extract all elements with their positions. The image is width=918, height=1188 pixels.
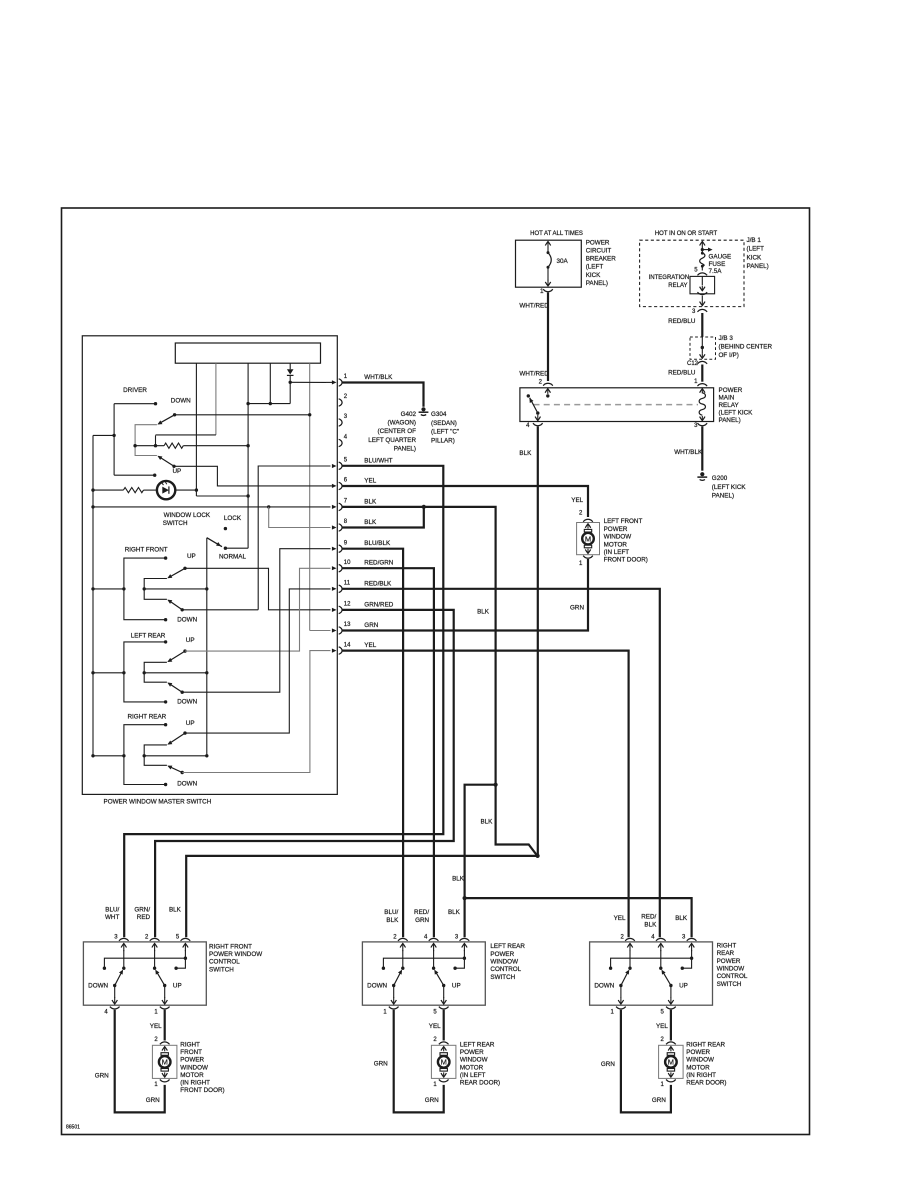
svg-text:POWER: POWER [180, 1057, 204, 1064]
feed wire [93, 588, 124, 590]
blade dot [183, 649, 186, 652]
wire BLK to right front switch [186, 856, 537, 937]
power circuit breaker box [516, 240, 582, 287]
svg-text:RIGHT FRONT: RIGHT FRONT [125, 547, 168, 554]
wire RED/BLU [701, 365, 703, 382]
connector pin 13 [339, 627, 342, 634]
svg-text:CONTROL: CONTROL [209, 959, 240, 966]
RIGHT REAR motor box [659, 1045, 684, 1078]
svg-text:DOWN: DOWN [594, 983, 614, 990]
fixed contact right [453, 967, 456, 970]
wire [660, 950, 662, 968]
svg-text:BLU/: BLU/ [384, 909, 398, 916]
wire driver contact riser [113, 404, 115, 476]
junction [546, 394, 549, 397]
circuit breaker 30A element [548, 253, 551, 268]
DOWN output to pin 5 riser [182, 609, 258, 611]
connector pin 5 [181, 938, 191, 940]
blade arrowhead [167, 741, 172, 745]
arrow up pin c [463, 943, 465, 951]
svg-text:SWITCH: SWITCH [163, 520, 188, 527]
connector pin 12 [339, 606, 342, 613]
svg-text:G402: G402 [401, 411, 417, 418]
svg-text:OF I/P): OF I/P) [719, 352, 739, 359]
svg-text:RIGHT: RIGHT [180, 1042, 200, 1049]
svg-text:POWER: POWER [490, 951, 514, 958]
wire [670, 986, 672, 999]
breaker contact top [547, 251, 550, 254]
connector [583, 556, 593, 558]
svg-text:INTEGRATION: INTEGRATION [649, 275, 690, 281]
junction on BLK bus [91, 505, 94, 508]
svg-text:(LEFT: (LEFT [747, 246, 765, 253]
connector relay pin 3 [697, 423, 707, 425]
svg-text:LOCK: LOCK [224, 515, 242, 522]
arrow pin 12 [332, 608, 337, 612]
svg-text:MOTOR: MOTOR [604, 541, 628, 548]
wire BLK branch to left rear / right rear [465, 785, 496, 938]
wire [620, 986, 622, 999]
svg-text:UP: UP [187, 553, 196, 560]
arrow down in integration relay [701, 286, 703, 291]
svg-text:REAR DOOR): REAR DOOR) [460, 1080, 500, 1087]
UP contact [164, 640, 167, 643]
svg-text:YEL: YEL [614, 915, 626, 922]
arrow down to J/B edge [701, 301, 703, 306]
svg-text:M: M [441, 1058, 447, 1067]
relay blade pivot [536, 411, 539, 414]
wire [196, 495, 248, 497]
breaker arrow up [547, 241, 549, 248]
UP blade [169, 651, 186, 661]
motor symbol M [667, 1053, 674, 1056]
diagram border frame [62, 208, 810, 1135]
svg-text:BLU/: BLU/ [105, 906, 119, 913]
connector pin 3 [460, 938, 470, 940]
DOWN blade [169, 766, 183, 772]
RIGHT power window control switch [590, 942, 713, 1005]
junction on common bus [205, 587, 208, 590]
svg-text:KICK: KICK [747, 254, 762, 261]
branch arrow right [702, 249, 708, 251]
svg-text:DOWN: DOWN [367, 983, 387, 990]
DOWN blade [169, 683, 183, 692]
blade dot [113, 984, 116, 987]
wire YEL to motor [670, 1010, 672, 1041]
wire [114, 474, 155, 476]
blade top dot [153, 967, 156, 970]
connector [666, 1080, 676, 1082]
fixed contact left [103, 967, 106, 970]
lock switch blade [207, 538, 222, 547]
arrow down [443, 997, 445, 1004]
svg-text:GRN: GRN [415, 917, 429, 924]
svg-text:WHT/RED: WHT/RED [519, 303, 549, 310]
integration relay box [690, 276, 715, 293]
arrow pin 5 [332, 464, 337, 468]
arrow down [114, 997, 116, 1004]
connector pin 8 [339, 524, 342, 531]
arrow down [443, 1072, 445, 1077]
svg-text:13: 13 [344, 622, 351, 628]
wire to riser [183, 445, 248, 447]
UP contact [164, 723, 167, 726]
UP output riser to pin 10 [185, 568, 331, 651]
svg-text:RELAY: RELAY [668, 283, 687, 289]
blade arrowhead [167, 766, 172, 770]
connector [439, 1080, 449, 1082]
UP blade [662, 971, 671, 986]
svg-text:DOWN: DOWN [177, 699, 197, 706]
normal contact [224, 547, 227, 550]
svg-text:WINDOW: WINDOW [717, 966, 745, 973]
UP blade [169, 568, 186, 577]
svg-text:(LEFT "C": (LEFT "C" [431, 429, 459, 436]
resistor LED [123, 488, 143, 493]
svg-text:NORMAL: NORMAL [219, 553, 246, 560]
svg-text:UP: UP [186, 637, 195, 644]
junction [143, 754, 146, 757]
svg-text:(LEFT KICK: (LEFT KICK [712, 484, 747, 491]
wire [184, 950, 186, 958]
svg-text:WHT: WHT [105, 914, 119, 921]
connector pin 1 [616, 1007, 626, 1009]
motor symbol M [440, 1053, 447, 1056]
wire YEL to motor [164, 1010, 166, 1041]
arrow down [587, 549, 589, 554]
wire to common bus [144, 755, 207, 757]
svg-text:BLK: BLK [675, 915, 688, 922]
svg-text:SWITCH: SWITCH [717, 981, 742, 988]
svg-text:PANEL): PANEL) [394, 445, 416, 452]
fixed contact left [382, 967, 385, 970]
svg-text:G200: G200 [712, 475, 728, 482]
svg-text:CONTROL: CONTROL [717, 973, 748, 980]
DOWN blade [115, 971, 123, 986]
UP blade [169, 733, 186, 744]
svg-text:RIGHT REAR: RIGHT REAR [128, 713, 167, 720]
UP blade [435, 971, 444, 986]
wire BLK from relay pin 4 [537, 426, 539, 856]
relay coil arrow down [701, 416, 703, 421]
BLK bus vertical [92, 435, 94, 755]
svg-text:POWER: POWER [604, 526, 628, 533]
connector relay pin 4 [533, 423, 543, 425]
blade top dot [659, 967, 662, 970]
arrow pin 1 [332, 380, 337, 384]
svg-text:UP: UP [173, 468, 182, 475]
blade arrowhead [157, 420, 162, 424]
wire BLK down to join relay BLK [496, 785, 538, 856]
wire pin1 WHT/BLK to ground [342, 383, 423, 407]
blade dot [392, 984, 395, 987]
connector [160, 1042, 170, 1044]
blade dot [183, 567, 186, 570]
blade arrowhead [434, 970, 438, 975]
wire BLK bus to pin 7 [93, 506, 331, 508]
svg-text:BLU/WHT: BLU/WHT [364, 457, 392, 464]
arrow down [670, 1072, 672, 1077]
svg-text:WINDOW LOCK: WINDOW LOCK [164, 512, 211, 519]
blade top dot [432, 967, 435, 970]
arrow up to HOT feed [701, 241, 703, 248]
blade arrowhead [662, 970, 666, 975]
svg-text:10: 10 [344, 560, 351, 566]
DOWN contact [164, 783, 167, 786]
svg-text:YEL: YEL [364, 478, 376, 485]
blade arrowhead [398, 970, 402, 975]
wire pin14 YEL to right rear switch [342, 651, 628, 938]
LEFT REAR contact riser [124, 642, 166, 702]
connector [583, 519, 593, 521]
svg-text:7.5A: 7.5A [709, 268, 723, 275]
lock contact [224, 527, 227, 530]
svg-text:BREAKER: BREAKER [586, 256, 617, 263]
feed wire [93, 755, 124, 757]
junction BLK [536, 854, 540, 858]
bracket [144, 662, 167, 682]
junction in J/B 3 [701, 346, 704, 349]
svg-text:PANEL): PANEL) [586, 280, 608, 287]
driver down contact [154, 402, 157, 405]
branch arrowhead [708, 248, 713, 252]
svg-text:YEL: YEL [571, 497, 583, 504]
arrow down [393, 997, 395, 1004]
DOWN blade [169, 600, 183, 610]
UP blade [156, 971, 165, 986]
connector pin 6 [339, 482, 342, 489]
wire pin9 BLU/BLK to left rear switch [342, 549, 403, 938]
wire pin11 RED/BLK to right rear switch [342, 589, 660, 937]
svg-text:GRN: GRN [374, 1060, 388, 1067]
connector [697, 273, 707, 275]
svg-text:DOWN: DOWN [88, 983, 108, 990]
svg-text:MOTOR: MOTOR [686, 1064, 710, 1071]
connector pin 4 [339, 439, 342, 446]
switch feed bar [104, 958, 185, 968]
junction on bracket [133, 444, 136, 447]
wire from rect riser [247, 363, 249, 548]
svg-text:UP: UP [173, 983, 182, 990]
arrow up pin b [433, 943, 435, 951]
connector pin 5 [339, 462, 342, 469]
wire from gray rect line [156, 434, 216, 436]
svg-text:G304: G304 [431, 411, 447, 418]
wire [547, 267, 549, 281]
wire [135, 445, 164, 447]
connector relay pin 2 [543, 383, 553, 385]
connector pin 2 [625, 938, 635, 940]
connector pin 3 [339, 419, 342, 426]
svg-text:(LEFT: (LEFT [586, 264, 604, 271]
diode [287, 369, 294, 374]
LED illumination lamp [157, 481, 175, 499]
svg-text:LEFT FRONT: LEFT FRONT [604, 518, 643, 525]
blade arrowhead [167, 658, 172, 662]
svg-text:M: M [585, 534, 591, 543]
UP output jog to pin 12 [185, 568, 331, 610]
junction on riser [195, 488, 198, 491]
arrow pin 13 [332, 628, 337, 632]
svg-text:RED/GRN: RED/GRN [364, 560, 393, 567]
arrow up [587, 524, 589, 529]
blade arrowhead [157, 456, 162, 460]
junction on BLK bus [91, 587, 94, 590]
wire GRN down-left [115, 1010, 165, 1113]
arrow up pin a [402, 943, 404, 951]
svg-text:GRN/RED: GRN/RED [364, 601, 393, 608]
ground G200 [700, 472, 704, 476]
DOWN contact [164, 700, 167, 703]
connector [160, 1080, 170, 1082]
gauge fuse 7.5A element [700, 253, 705, 266]
blade arrowhead [167, 574, 172, 578]
motor symbol M [161, 1053, 168, 1056]
DOWN output riser to pin 14 [182, 651, 330, 773]
svg-text:POWER: POWER [719, 387, 743, 394]
svg-text:GRN: GRN [364, 622, 378, 629]
svg-text:YEL: YEL [429, 1023, 441, 1030]
junction [701, 248, 704, 251]
wire pin8 BLK joining pin 7 [342, 507, 424, 528]
junction pin 8 wire [422, 505, 426, 509]
arrow pin 7 [332, 505, 337, 509]
junction on BLK bus [91, 488, 94, 491]
svg-text:LEFT REAR: LEFT REAR [131, 632, 166, 639]
svg-text:GRN/: GRN/ [134, 906, 150, 913]
svg-text:BLK: BLK [480, 819, 493, 826]
junction on BLK bus [91, 754, 94, 757]
svg-text:1: 1 [540, 288, 544, 295]
svg-text:POWER WINDOW: POWER WINDOW [209, 951, 262, 958]
arrow down [701, 354, 703, 359]
junction BLK to right rear [463, 896, 467, 900]
connector pin 4 [429, 938, 439, 940]
wire driver down blade to gray riser [175, 414, 310, 416]
blade dot [619, 984, 622, 987]
blade end dot [172, 465, 175, 468]
svg-text:RELAY: RELAY [719, 402, 740, 409]
fuse terminal [701, 252, 704, 255]
wire [326, 381, 332, 383]
wire [443, 986, 445, 999]
junction BLK split [494, 783, 498, 787]
junction pin 8 tap [267, 505, 270, 508]
wire below diode [289, 375, 291, 403]
svg-text:(CENTER OF: (CENTER OF [378, 428, 417, 435]
svg-text:FRONT DOOR): FRONT DOOR) [604, 557, 648, 564]
RIGHT FRONT contact riser [124, 558, 166, 620]
junction [143, 671, 146, 674]
arrow pin 10 [332, 566, 337, 570]
arrow down to pin 4 [537, 415, 539, 421]
blade dot [181, 771, 184, 774]
wire gray to pin 8 [269, 507, 331, 528]
svg-text:PILLAR): PILLAR) [431, 437, 455, 444]
wire WHT/BLK to ground [701, 426, 703, 470]
svg-text:BLK: BLK [386, 917, 399, 924]
connector pin 5 [666, 1007, 676, 1009]
svg-text:(BEHIND CENTER: (BEHIND CENTER [719, 343, 773, 350]
wire from rect [269, 363, 271, 403]
wire to BLK bus [93, 434, 114, 436]
svg-text:GRN: GRN [146, 1097, 160, 1104]
connector [439, 1042, 449, 1044]
connector pin 3 [119, 938, 129, 940]
wire [114, 403, 155, 405]
svg-text:RIGHT REAR: RIGHT REAR [686, 1042, 725, 1049]
wire [701, 266, 703, 270]
blade top dot [122, 967, 125, 970]
fixed contact right [681, 967, 684, 970]
wire [114, 986, 116, 999]
J/B 3 dashed box [690, 337, 716, 359]
blade dot [183, 731, 186, 734]
wire [402, 950, 404, 968]
wire from rect to LED row [195, 363, 197, 496]
RIGHT REAR contact riser [124, 725, 166, 785]
svg-text:RED/: RED/ [414, 909, 429, 916]
driver up blade [159, 456, 175, 466]
wire GRN down-left [394, 1010, 444, 1113]
wire [164, 986, 166, 999]
connector pin 1 [160, 1007, 170, 1009]
junction on gray riser [308, 413, 311, 416]
connector below J/B 1 [697, 309, 707, 311]
svg-text:HOT AT ALL TIMES: HOT AT ALL TIMES [530, 231, 583, 237]
wire [463, 950, 465, 958]
wire gray to pin 13 [310, 630, 331, 632]
svg-text:(IN RIGHT: (IN RIGHT [686, 1072, 716, 1079]
svg-text:PANEL): PANEL) [747, 263, 769, 270]
bracket [144, 579, 167, 600]
svg-text:RIGHT FRONT: RIGHT FRONT [209, 943, 252, 950]
svg-text:POWER: POWER [717, 958, 741, 965]
svg-text:GAUGE: GAUGE [709, 254, 732, 261]
svg-text:UP: UP [679, 983, 688, 990]
feed wire [93, 672, 124, 674]
svg-text:DRIVER: DRIVER [123, 387, 147, 394]
wire to diode [289, 363, 291, 369]
connector pin 1 [389, 1007, 399, 1009]
connector pin 4 [656, 938, 666, 940]
svg-text:GRN: GRN [570, 604, 584, 611]
junction [463, 957, 466, 960]
DOWN contact [164, 618, 167, 621]
wire through J/B 3 [701, 337, 703, 354]
DOWN output riser to pin 9 [182, 549, 330, 693]
connector at relay bottom [697, 292, 707, 294]
arrow up [164, 1046, 166, 1051]
DOWN blade [394, 971, 402, 986]
blade arrowhead [155, 970, 159, 975]
wire [123, 950, 125, 968]
junction [246, 494, 249, 497]
svg-text:C12: C12 [687, 361, 699, 367]
ground G402/G304 [421, 407, 425, 411]
svg-text:(SEDAN): (SEDAN) [431, 420, 457, 427]
wire to pin 1 [290, 381, 326, 383]
relay internal dashed line [534, 404, 699, 406]
blade top dot [628, 967, 631, 970]
svg-text:BLK: BLK [477, 608, 490, 615]
wire GRN down-left [621, 1010, 671, 1113]
svg-text:WHT/BLK: WHT/BLK [364, 374, 393, 381]
arrow up [670, 1046, 672, 1051]
svg-text:(IN LEFT: (IN LEFT [604, 549, 630, 556]
driver down blade [159, 415, 175, 424]
switch feed bar [611, 958, 692, 968]
